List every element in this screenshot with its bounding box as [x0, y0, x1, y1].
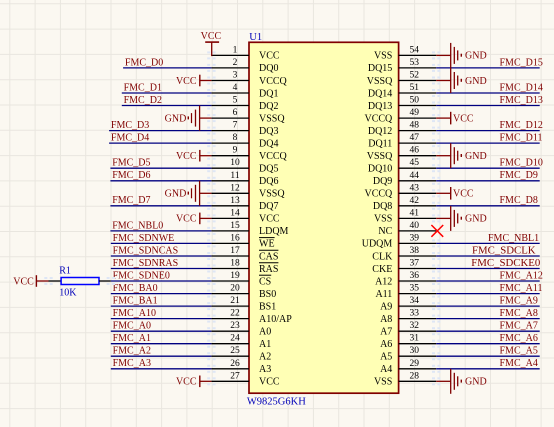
svg-text:3: 3	[233, 71, 238, 81]
svg-text:41: 41	[410, 208, 420, 218]
net label FMC_BA0	[113, 283, 158, 294]
svg-text:24: 24	[230, 334, 240, 344]
svg-text:DQ14: DQ14	[368, 88, 392, 99]
designator R1	[59, 266, 71, 277]
svg-text:18: 18	[230, 259, 240, 269]
svg-text:FMC_D5: FMC_D5	[112, 158, 150, 169]
pin 34 (A9) right stub + number + name	[380, 296, 436, 312]
value W9825G6KH	[247, 396, 306, 407]
svg-text:VSS: VSS	[374, 377, 392, 388]
svg-text:A1: A1	[259, 339, 271, 350]
svg-text:FMC_D9: FMC_D9	[500, 170, 538, 181]
power port VCC (pin 43)	[436, 187, 474, 200]
svg-text:FMC_NBL0: FMC_NBL0	[112, 220, 163, 231]
wire FMC_SDNRAS	[111, 268, 212, 270]
wire FMC_SDNE0	[111, 280, 212, 282]
pin 27 (VCC) left stub + number + name	[211, 371, 279, 387]
svg-text:13: 13	[230, 196, 240, 206]
wire FMC_A3	[111, 368, 212, 370]
net label FMC_A8	[500, 308, 538, 319]
svg-text:10: 10	[230, 158, 240, 168]
wire FMC_NBL0	[110, 230, 211, 232]
wire FMC_SDNWE	[111, 242, 212, 244]
svg-text:GND: GND	[465, 214, 487, 225]
net label FMC_D5	[112, 158, 150, 169]
svg-text:VCC: VCC	[453, 113, 474, 124]
svg-text:A5: A5	[380, 352, 392, 363]
pin 10 (DQ5) left stub + number + name	[211, 158, 278, 174]
pin 1 (VCC) left stub + number + name	[211, 45, 279, 61]
pin 29 (A4) right stub + number + name	[380, 359, 436, 375]
svg-text:FMC_D7: FMC_D7	[112, 195, 150, 206]
pin 47 (DQ11) right stub + number + name	[368, 133, 436, 149]
svg-text:36: 36	[410, 271, 420, 281]
svg-text:1: 1	[233, 45, 238, 55]
net label FMC_A4	[500, 358, 538, 369]
pin 26 (A3) left stub + number + name	[211, 359, 271, 375]
pin 43 (VCCQ) right stub + number + name	[365, 183, 437, 199]
net label FMC_NBL0	[112, 220, 163, 231]
svg-text:FMC_A0: FMC_A0	[113, 321, 151, 332]
pin 36 (A12) right stub + number + name	[375, 271, 436, 287]
svg-text:FMC_D3: FMC_D3	[111, 120, 149, 131]
svg-text:FMC_D14: FMC_D14	[500, 82, 543, 93]
wire FMC_A0	[111, 330, 212, 332]
value 10K	[59, 288, 77, 299]
svg-text:FMC_D10: FMC_D10	[500, 158, 543, 169]
svg-text:NC: NC	[378, 226, 392, 237]
svg-text:39: 39	[410, 233, 420, 243]
svg-text:R1: R1	[59, 266, 71, 277]
svg-text:29: 29	[410, 359, 420, 369]
net label FMC_A1	[113, 333, 151, 344]
svg-text:BS0: BS0	[259, 289, 276, 300]
svg-text:A12: A12	[375, 276, 392, 287]
svg-text:A2: A2	[259, 352, 271, 363]
wire FMC_A8	[436, 318, 540, 320]
pin 42 (DQ8) right stub + number + name	[373, 196, 436, 212]
wire FMC_D15	[436, 67, 540, 69]
svg-text:VCC: VCC	[259, 51, 280, 62]
power port VCC (pin 49)	[436, 112, 474, 125]
svg-text:W9825G6KH: W9825G6KH	[247, 396, 306, 407]
pin 53 (DQ15) right stub + number + name	[368, 58, 436, 74]
svg-text:GND: GND	[465, 377, 487, 388]
pin 49 (VCCQ) right stub + number + name	[365, 108, 437, 124]
net label FMC_A7	[500, 321, 538, 332]
svg-text:FMC_A7: FMC_A7	[500, 321, 538, 332]
wire FMC_D4	[109, 142, 211, 144]
net label FMC_A10	[113, 308, 156, 319]
wire FMC_D7	[110, 205, 211, 207]
power port VCC (R1 pull-up)	[13, 275, 48, 287]
net label FMC_D15	[500, 57, 543, 68]
svg-text:DQ11: DQ11	[368, 138, 392, 149]
svg-text:32: 32	[410, 321, 420, 331]
svg-text:U1: U1	[249, 32, 262, 43]
svg-text:FMC_BA0: FMC_BA0	[113, 283, 158, 294]
svg-text:7: 7	[233, 121, 238, 131]
svg-text:DQ4: DQ4	[259, 138, 278, 149]
svg-text:33: 33	[410, 309, 420, 319]
svg-text:CKE: CKE	[372, 264, 392, 275]
designator U1	[249, 32, 262, 43]
wire FMC_A1	[111, 343, 212, 345]
power port VCC (pin 27)	[176, 376, 211, 388]
svg-text:DQ15: DQ15	[368, 63, 392, 74]
svg-text:52: 52	[410, 71, 420, 81]
pin 5 (DQ2) left stub + number + name	[211, 96, 278, 112]
wire FMC_D5	[110, 167, 211, 169]
wire FMC_A4	[436, 368, 540, 370]
net label FMC_D3	[111, 120, 149, 131]
svg-text:9: 9	[233, 146, 238, 156]
svg-text:DQ12: DQ12	[368, 126, 392, 137]
net label FMC_SDNE0	[113, 270, 170, 281]
pin 24 (A1) left stub + number + name	[211, 334, 271, 350]
ground GND (pin 41)	[436, 206, 486, 231]
pin 22 (A10/AP) left stub + number + name	[211, 309, 292, 325]
net label FMC_A2	[113, 346, 151, 357]
net label FMC_D0	[125, 57, 163, 68]
svg-text:FMC_SDCLK: FMC_SDCLK	[472, 244, 536, 256]
pin 40 (NC) right stub + number + name	[378, 221, 436, 237]
svg-text:FMC_D12: FMC_D12	[500, 120, 543, 131]
svg-text:A6: A6	[380, 339, 392, 350]
svg-text:FMC_D8: FMC_D8	[500, 195, 538, 206]
svg-text:8: 8	[233, 133, 238, 143]
svg-text:FMC_A3: FMC_A3	[113, 358, 151, 369]
svg-text:VCCQ: VCCQ	[259, 151, 288, 162]
power port VCC (pin 1, top)	[201, 31, 222, 56]
wire FMC_A11	[436, 293, 540, 295]
no-ERC marker (pin 40 NC)	[431, 225, 443, 237]
pin 11 (DQ6) left stub + number + name	[211, 171, 278, 187]
svg-text:A11: A11	[375, 289, 392, 300]
svg-text:CAS: CAS	[259, 251, 278, 262]
wire FMC_D8	[436, 205, 540, 207]
svg-text:FMC_A6: FMC_A6	[500, 333, 538, 344]
svg-text:53: 53	[410, 58, 420, 68]
svg-text:FMC_SDCKE0: FMC_SDCKE0	[471, 257, 540, 269]
wire FMC_SDCLK	[436, 255, 540, 257]
svg-text:FMC_NBL1: FMC_NBL1	[488, 233, 539, 244]
svg-text:49: 49	[410, 108, 420, 118]
svg-text:DQ10: DQ10	[368, 164, 392, 175]
svg-text:VCC: VCC	[453, 189, 474, 200]
svg-text:5: 5	[233, 96, 238, 106]
pin 28 (VSS) right stub + number + name	[374, 371, 436, 387]
wire FMC_A2	[111, 355, 212, 357]
net label FMC_D7	[112, 195, 150, 206]
wire FMC_A10	[111, 318, 212, 320]
svg-text:10K: 10K	[59, 288, 77, 299]
pin 45 (DQ10) right stub + number + name	[368, 158, 436, 174]
svg-text:2: 2	[233, 58, 238, 68]
pin 12 (VSSQ) left stub + number + name	[211, 183, 285, 199]
pin 6 (VSSQ) left stub + number + name	[211, 108, 285, 124]
svg-text:RAS: RAS	[259, 264, 278, 275]
svg-text:FMC_D15: FMC_D15	[500, 57, 543, 68]
wire FMC_SDNCAS	[111, 255, 212, 257]
pin 13 (DQ7) left stub + number + name	[211, 196, 278, 212]
pin 32 (A7) right stub + number + name	[380, 321, 436, 337]
svg-text:35: 35	[410, 284, 420, 294]
svg-text:FMC_A5: FMC_A5	[500, 346, 538, 357]
svg-text:A7: A7	[380, 327, 392, 338]
svg-text:VCCQ: VCCQ	[365, 189, 394, 200]
net label FMC_SDNWE	[113, 233, 175, 244]
pin 35 (A11) right stub + number + name	[375, 284, 436, 300]
svg-text:A3: A3	[259, 364, 271, 375]
svg-text:FMC_A8: FMC_A8	[500, 308, 538, 319]
svg-text:FMC_D6: FMC_D6	[112, 170, 150, 181]
svg-text:BS1: BS1	[259, 301, 276, 312]
svg-text:37: 37	[410, 259, 420, 269]
ground GND (pin 46)	[436, 143, 486, 168]
svg-text:27: 27	[230, 371, 240, 381]
wire FMC_NBL1	[436, 242, 540, 244]
wire FMC_A7	[436, 330, 540, 332]
svg-text:31: 31	[410, 334, 420, 344]
svg-text:DQ0: DQ0	[259, 63, 278, 74]
ground GND (pin 12)	[165, 181, 212, 206]
pin 3 (VCCQ) left stub + number + name	[211, 71, 287, 87]
svg-text:19: 19	[230, 271, 240, 281]
wire FMC_A6	[436, 343, 540, 345]
wire FMC_BA0	[111, 293, 212, 295]
svg-text:FMC_A11: FMC_A11	[500, 283, 543, 294]
wire FMC_D10	[436, 167, 540, 169]
ground GND (pin 54)	[436, 43, 486, 68]
svg-text:15: 15	[230, 221, 240, 231]
pin 44 (DQ9) right stub + number + name	[373, 171, 436, 187]
svg-text:GND: GND	[465, 51, 487, 62]
wire FMC_D2	[122, 105, 212, 107]
net label FMC_D13	[500, 95, 543, 106]
wire FMC_D12	[436, 130, 540, 132]
wire FMC_D14	[436, 92, 540, 94]
net label FMC_A5	[500, 346, 538, 357]
svg-text:VSSQ: VSSQ	[367, 151, 393, 162]
net label FMC_D8	[500, 195, 538, 206]
svg-text:51: 51	[410, 83, 420, 93]
svg-text:4: 4	[233, 83, 238, 93]
svg-text:14: 14	[230, 208, 240, 218]
pin 52 (VSSQ) right stub + number + name	[367, 71, 436, 87]
power port VCC (pin 3)	[176, 75, 211, 87]
svg-text:DQ6: DQ6	[259, 176, 278, 187]
svg-text:25: 25	[230, 346, 240, 356]
pin 2 (DQ0) left stub + number + name	[211, 58, 278, 74]
svg-text:46: 46	[410, 146, 420, 156]
svg-text:FMC_D11: FMC_D11	[500, 133, 543, 144]
net label FMC_A12	[500, 270, 543, 281]
svg-text:VSS: VSS	[374, 214, 392, 225]
svg-text:VCC: VCC	[176, 151, 197, 162]
svg-text:DQ9: DQ9	[373, 176, 392, 187]
pin 21 (BS1) left stub + number + name	[211, 296, 276, 312]
svg-text:26: 26	[230, 359, 240, 369]
svg-text:FMC_D0: FMC_D0	[125, 57, 163, 68]
svg-text:WE: WE	[259, 239, 275, 250]
power port VCC (pin 9)	[176, 150, 211, 162]
net label FMC_NBL1	[488, 233, 539, 244]
svg-text:DQ2: DQ2	[259, 101, 278, 112]
pin 31 (A6) right stub + number + name	[380, 334, 436, 350]
svg-text:54: 54	[410, 45, 420, 55]
pin 33 (A8) right stub + number + name	[380, 309, 436, 325]
svg-text:DQ5: DQ5	[259, 164, 278, 175]
svg-text:30: 30	[410, 346, 420, 356]
svg-text:42: 42	[410, 196, 420, 206]
svg-text:FMC_BA1: FMC_BA1	[113, 296, 158, 307]
power port VCC (pin 14)	[176, 213, 211, 225]
pin 48 (DQ12) right stub + number + name	[368, 121, 436, 137]
pin 7 (DQ3) left stub + number + name	[211, 121, 278, 137]
svg-text:VSSQ: VSSQ	[259, 113, 285, 124]
svg-text:VCCQ: VCCQ	[365, 113, 394, 124]
svg-text:DQ3: DQ3	[259, 126, 278, 137]
svg-text:CS: CS	[259, 276, 271, 287]
svg-text:11: 11	[230, 171, 239, 181]
svg-text:VSSQ: VSSQ	[367, 76, 393, 87]
svg-text:6: 6	[233, 108, 238, 118]
svg-text:UDQM: UDQM	[362, 239, 393, 250]
svg-text:VCC: VCC	[176, 214, 197, 225]
svg-text:FMC_A9: FMC_A9	[500, 296, 538, 307]
wire FMC_A5	[436, 355, 540, 357]
svg-text:16: 16	[230, 233, 240, 243]
svg-text:FMC_SDNWE: FMC_SDNWE	[113, 233, 175, 244]
svg-text:47: 47	[410, 133, 420, 143]
svg-text:VCCQ: VCCQ	[259, 76, 288, 87]
svg-text:A10/AP: A10/AP	[259, 314, 292, 325]
svg-text:VSS: VSS	[374, 51, 392, 62]
pin 19 (CS) left stub + number + name	[211, 271, 271, 287]
pin 15 (LDQM) left stub + number + name	[211, 221, 288, 237]
pin 14 (VCC) left stub + number + name	[211, 208, 279, 224]
net label FMC_D4	[111, 133, 149, 144]
svg-text:43: 43	[410, 183, 420, 193]
svg-text:17: 17	[230, 246, 240, 256]
svg-text:FMC_A10: FMC_A10	[113, 308, 156, 319]
wire FMC_A12	[436, 280, 540, 282]
ground GND (pin 28)	[436, 369, 486, 394]
pin 9 (VCCQ) left stub + number + name	[211, 146, 287, 162]
net label FMC_A11	[500, 283, 543, 294]
svg-text:FMC_D4: FMC_D4	[111, 133, 149, 144]
pin 20 (BS0) left stub + number + name	[211, 284, 276, 300]
svg-text:FMC_A4: FMC_A4	[500, 358, 538, 369]
svg-text:VCC: VCC	[176, 377, 197, 388]
net label FMC_D1	[124, 82, 162, 93]
pin 54 (VSS) right stub + number + name	[374, 45, 436, 61]
pin 39 (UDQM) right stub + number + name	[362, 233, 436, 249]
svg-text:FMC_A12: FMC_A12	[500, 270, 543, 281]
svg-text:VSSQ: VSSQ	[259, 189, 285, 200]
ground GND (pin 52)	[436, 68, 486, 93]
pin 46 (VSSQ) right stub + number + name	[367, 146, 436, 162]
net label FMC_SDCKE0	[471, 257, 540, 269]
wire FMC_D9	[436, 180, 540, 182]
svg-text:40: 40	[410, 221, 420, 231]
svg-text:VCC: VCC	[176, 76, 197, 87]
net label FMC_D11	[500, 133, 543, 144]
pin 8 (DQ4) left stub + number + name	[211, 133, 278, 149]
svg-text:LDQM: LDQM	[259, 226, 289, 237]
svg-text:44: 44	[410, 171, 420, 181]
svg-text:DQ1: DQ1	[259, 88, 278, 99]
net label FMC_A3	[113, 358, 151, 369]
svg-text:GND: GND	[165, 189, 187, 200]
svg-text:A0: A0	[259, 327, 271, 338]
svg-text:FMC_D2: FMC_D2	[124, 95, 162, 106]
svg-text:FMC_SDNCAS: FMC_SDNCAS	[113, 245, 179, 256]
net label FMC_D10	[500, 158, 543, 169]
svg-text:A4: A4	[380, 364, 392, 375]
svg-text:FMC_D13: FMC_D13	[500, 95, 543, 106]
svg-text:FMC_A2: FMC_A2	[113, 346, 151, 357]
svg-text:FMC_SDNRAS: FMC_SDNRAS	[113, 258, 179, 269]
svg-text:50: 50	[410, 96, 420, 106]
net label FMC_A0	[113, 321, 151, 332]
wire FMC_D1	[122, 92, 212, 94]
svg-text:FMC_A1: FMC_A1	[113, 333, 151, 344]
net label FMC_A9	[500, 296, 538, 307]
svg-text:A9: A9	[380, 301, 392, 312]
svg-text:DQ13: DQ13	[368, 101, 392, 112]
net label FMC_BA1	[113, 296, 158, 307]
svg-text:CLK: CLK	[372, 251, 393, 262]
wire FMC_D0	[123, 67, 211, 69]
pin 50 (DQ13) right stub + number + name	[368, 96, 436, 112]
net label FMC_D9	[500, 170, 538, 181]
pin 25 (A2) left stub + number + name	[211, 346, 271, 362]
svg-text:FMC_SDNE0: FMC_SDNE0	[113, 270, 170, 281]
svg-text:VCC: VCC	[201, 31, 222, 42]
ground GND (pin 6)	[165, 106, 212, 131]
pin 38 (CLK) right stub + number + name	[372, 246, 436, 262]
pin 30 (A5) right stub + number + name	[380, 346, 436, 362]
svg-text:FMC_D1: FMC_D1	[124, 82, 162, 93]
svg-text:12: 12	[230, 183, 240, 193]
svg-text:VCC: VCC	[259, 377, 280, 388]
pin 51 (DQ14) right stub + number + name	[368, 83, 436, 99]
wire FMC_D6	[110, 180, 211, 182]
svg-text:GND: GND	[165, 113, 187, 124]
svg-text:23: 23	[230, 321, 240, 331]
svg-text:VCC: VCC	[259, 214, 280, 225]
pin 16 (WE) left stub + number + name	[211, 233, 274, 249]
svg-text:48: 48	[410, 121, 420, 131]
svg-text:20: 20	[230, 284, 240, 294]
net label FMC_SDNRAS	[113, 258, 179, 269]
pin 23 (A0) left stub + number + name	[211, 321, 271, 337]
svg-text:45: 45	[410, 158, 420, 168]
svg-text:34: 34	[410, 296, 420, 306]
svg-text:22: 22	[230, 309, 240, 319]
junction snap marks at pin/wire connection points	[44, 51, 440, 385]
net label FMC_D2	[124, 95, 162, 106]
svg-text:A8: A8	[380, 314, 392, 325]
net label FMC_D6	[112, 170, 150, 181]
IC U1 body	[249, 42, 399, 393]
svg-text:GND: GND	[465, 151, 487, 162]
resistor R1	[49, 278, 111, 285]
wire FMC_D3	[109, 130, 211, 132]
svg-text:38: 38	[410, 246, 420, 256]
